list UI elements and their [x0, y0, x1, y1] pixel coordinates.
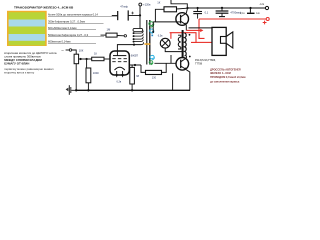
svg-text:ГТ708: ГТ708 [195, 62, 203, 65]
svg-text:ПРОВОДОМ 0,7ммх2 х0,3мм: ПРОВОДОМ 0,7ммх2 х0,3мм [210, 75, 246, 79]
capacitor 47pf [112, 5, 140, 21]
svg-text:БУМАГУ ОТ 6ЛИН: БУМАГУ ОТ 6ЛИН [4, 62, 29, 66]
transformer T2 left winding [178, 35, 181, 49]
svg-text:6,3в: 6,3в [158, 35, 163, 38]
svg-text:6,3в: 6,3в [117, 81, 122, 84]
speaker [221, 32, 233, 48]
transformer T1 secondary winding cyan [150, 29, 154, 36]
Q2 emitter to rail [186, 70, 189, 91]
resistor 10K [74, 48, 84, 63]
svg-text:ТРАНСФОРМАТОР ЖЕЛЕЗО 4...6СМ К: ТРАНСФОРМАТОР ЖЕЛЕЗО 4...6СМ КВ [14, 6, 74, 10]
wire input to R 10K [72, 50, 76, 54]
legend bar winding 4 blue [9, 34, 46, 41]
terminal +120v [139, 3, 151, 7]
tube output wire right side [129, 64, 145, 73]
transformer T1 tap row 1 loop [133, 28, 143, 31]
legend bar winding 3 green [9, 27, 46, 35]
rail left output connector [66, 85, 77, 95]
top supply wire [188, 7, 266, 9]
T2 to rail stub [172, 73, 174, 90]
wire to resistor 100K [86, 59, 88, 68]
transformer T1 secondary winding green top [149, 22, 154, 27]
svg-text:6Ж5П: 6Ж5П [131, 54, 138, 58]
transformer T1 core [147, 20, 150, 65]
red terminal +12v [263, 18, 270, 25]
ground rail [75, 89, 190, 91]
svg-text:0,1: 0,1 [205, 11, 209, 15]
transformer T1 core orange gap mark [144, 43, 150, 45]
svg-text:-12в: -12в [259, 3, 265, 6]
winding label 2 [48, 19, 104, 23]
svg-text:1К: 1К [157, 1, 160, 5]
left note text block [4, 51, 57, 75]
transformer T1 primary bottom hook [142, 42, 144, 44]
svg-text:0,1в: 0,1в [240, 12, 245, 15]
winding label 5 [48, 40, 96, 44]
wire R10K to ground rail [75, 64, 77, 91]
capacitor 0,1 [193, 8, 208, 19]
resistor 1K horizontal [92, 52, 110, 61]
svg-text:10К: 10К [79, 48, 84, 52]
svg-text:300в бифиляром 0,27...0,3мм: 300в бифиляром 0,27...0,3мм [48, 19, 85, 23]
legend bar winding 1 green [9, 12, 46, 19]
tube 6Zh5P envelope [110, 51, 138, 75]
resistor 130 [146, 63, 167, 79]
resistor 1M [101, 27, 125, 37]
transformer T2 core [182, 30, 184, 58]
winding label 4 [48, 33, 104, 37]
svg-text:500витков бифиляром 0,27...0,3: 500витков бифиляром 0,27...0,3 [48, 33, 89, 37]
Q2 labels [195, 59, 216, 65]
indicator lamp [158, 35, 170, 49]
svg-text:ЖЕЛЕЗО 4...6СМ: ЖЕЛЕЗО 4...6СМ [210, 71, 231, 75]
capacitor 4700mkf [216, 8, 242, 17]
red wire lamp to T2 [170, 33, 212, 43]
winding label 3 [48, 26, 96, 30]
transformer T1 secondary winding cyan bottom [150, 55, 154, 60]
red wire down from rail [199, 19, 205, 38]
svg-text:ДРОССЕЛЬ АВТОГЕНЕР.: ДРОССЕЛЬ АВТОГЕНЕР. [210, 67, 241, 71]
T2 left winding bottom lead [170, 55, 172, 63]
svg-text:130: 130 [152, 77, 157, 80]
svg-text:до заполнения каркаса: до заполнения каркаса [210, 80, 240, 83]
Q1 emitter wire [185, 25, 187, 30]
transformer T1 tap row 4 [133, 37, 144, 41]
wire +120v down [139, 6, 141, 29]
svg-text:600+600витков 0,14мм: 600+600витков 0,14мм [48, 26, 77, 30]
transformer T1 tap row 3 [133, 34, 144, 38]
cathode resistor 68 [130, 65, 140, 90]
tube cathode arc [115, 67, 125, 70]
winding label 1 [48, 13, 117, 17]
legend bar winding 5 green [9, 41, 46, 46]
terminal -12v [259, 3, 268, 9]
svg-text:+120в: +120в [143, 3, 151, 7]
Q2 collector stub [185, 56, 187, 58]
decoupling plate cap [240, 8, 260, 15]
transistor Q1 [176, 13, 189, 26]
svg-text:вторичку виток к витку: вторичку виток к витку [4, 71, 35, 75]
title: transformer note [14, 6, 74, 10]
transformer T2 right winding [185, 33, 191, 57]
transistor Q2 [176, 58, 189, 71]
wire T1 secondary to Q1 base [152, 22, 176, 33]
resistor 100K [86, 68, 99, 90]
red supply rail +12v [199, 18, 266, 20]
svg-text:более 500в до заполнения карка: более 500в до заполнения каркаса 0,14 [48, 13, 98, 17]
speaker enclosure box [212, 27, 226, 55]
transformer T1 tap row 5 [133, 39, 144, 42]
svg-text:1К: 1К [94, 52, 97, 56]
grid wire with junctions [79, 58, 92, 60]
svg-text:100К: 100К [93, 71, 99, 75]
tube anode wire to transformer taps [117, 44, 141, 52]
legend bar winding 2 blue [9, 20, 46, 27]
wire from top edge [171, 0, 187, 8]
input terminal [62, 49, 72, 52]
tube anode plate [113, 51, 126, 56]
lamp bottom wire [165, 48, 183, 52]
transformer T1 tap row 2 [133, 31, 144, 34]
tube grid 1 dashed [112, 58, 127, 60]
transformer T1 secondary winding green bottom [149, 61, 153, 65]
svg-text:600витков 0,14мм: 600витков 0,14мм [48, 40, 71, 44]
Q1 collector wire [186, 7, 188, 13]
selector probe circle [124, 35, 126, 37]
svg-text:47пкф: 47пкф [120, 5, 128, 9]
resistor 1K collector [155, 1, 187, 22]
tube heater leads with arrows [115, 71, 124, 84]
wire T1 bottom secondary to Q2 base [154, 62, 176, 64]
red arrow wire from Q1 emitter [186, 29, 203, 32]
choke note maroon text [210, 67, 246, 83]
winding color legend block border [7, 11, 47, 46]
tube grid 2 dashed [112, 61, 127, 63]
wire Q1 area to speaker box [189, 27, 213, 29]
